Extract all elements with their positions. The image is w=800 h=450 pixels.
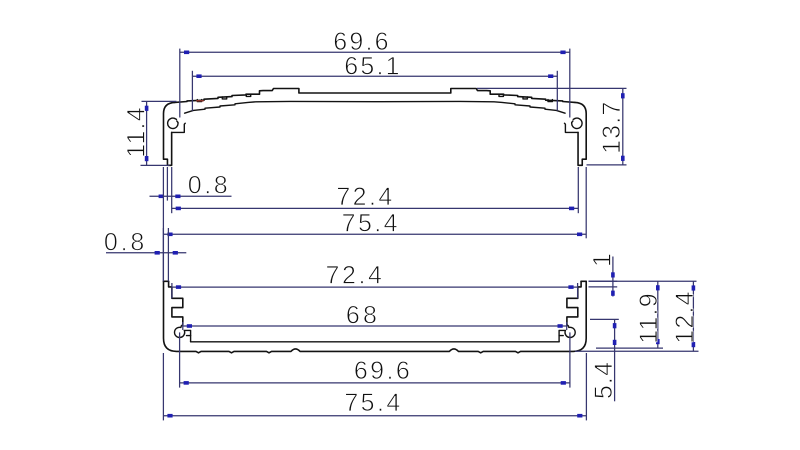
svg-text:72.4: 72.4 — [325, 262, 384, 290]
svg-text:0.8: 0.8 — [188, 171, 231, 199]
svg-text:65.1: 65.1 — [344, 53, 401, 81]
svg-text:11.4: 11.4 — [123, 106, 151, 158]
svg-text:69.6: 69.6 — [354, 357, 412, 385]
svg-text:75.4: 75.4 — [342, 209, 400, 237]
svg-text:75.4: 75.4 — [344, 389, 402, 417]
svg-text:0.8: 0.8 — [104, 228, 147, 256]
svg-text:72.4: 72.4 — [336, 183, 394, 211]
svg-text:11.9: 11.9 — [635, 292, 663, 344]
svg-text:68: 68 — [346, 301, 380, 329]
svg-text:13.7: 13.7 — [598, 100, 626, 153]
svg-text:1: 1 — [588, 252, 616, 267]
svg-text:12.4: 12.4 — [671, 290, 699, 343]
svg-text:5.4: 5.4 — [590, 361, 618, 399]
svg-text:69.6: 69.6 — [333, 28, 390, 56]
